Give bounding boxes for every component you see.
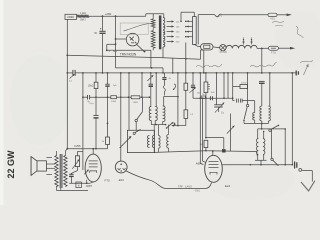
wire branch J top <box>163 73 165 77</box>
svg-text:+260: +260 <box>105 12 112 16</box>
wire branch N top <box>185 59 187 83</box>
squiggle K <box>173 84 176 90</box>
resistor R2 15k <box>88 82 98 88</box>
connector bars <box>295 162 297 169</box>
wire tube V3 bottom <box>87 180 94 183</box>
label box AREF <box>65 14 77 19</box>
pencil arrow at bus end <box>300 61 313 76</box>
capacitor C2 bus series <box>73 70 75 76</box>
wire switch SW1 stem <box>141 97 143 112</box>
RF tube V2 <box>205 151 223 182</box>
wire T2 bottom <box>57 186 89 191</box>
wire branch R mid <box>205 93 207 139</box>
wire branch Y <box>271 129 273 158</box>
wire heater line <box>67 55 200 59</box>
wire left column <box>66 19 68 73</box>
svg-text:4687: 4687 <box>86 184 93 188</box>
small coil L3 <box>253 113 255 121</box>
connector at bus end <box>296 71 298 76</box>
transformer T1 secondary <box>163 18 165 48</box>
wire branch Q <box>202 97 205 162</box>
capacitor C1 50uF <box>94 28 105 35</box>
svg-text:∼1MΩ: ∼1MΩ <box>193 191 200 193</box>
wire branch S <box>223 73 225 98</box>
wire grid chain 3 <box>116 96 131 98</box>
wire heater to bus <box>261 48 263 73</box>
wire branch V2 <box>115 16 117 68</box>
wire branch C top <box>95 73 97 82</box>
wire IF2 top a <box>257 129 259 139</box>
wire selector drop <box>185 43 187 59</box>
AF tube V1 <box>115 161 127 173</box>
node heater-selector <box>185 58 187 60</box>
wire top rail left <box>76 15 79 17</box>
wire fuse-lamp <box>213 46 220 49</box>
trimmer arrow H <box>147 75 153 81</box>
main bus <box>67 72 296 74</box>
wire branch Q upper <box>203 50 205 73</box>
capacitor C7 <box>162 78 171 81</box>
wire branch M <box>177 73 179 126</box>
capacitor C8 <box>191 85 195 87</box>
wire primary bottom <box>152 48 154 50</box>
svg-text:F255: F255 <box>74 144 81 148</box>
transformer T1 primary <box>151 17 155 48</box>
wire upper rail drop <box>162 68 164 73</box>
svg-text:F70: F70 <box>105 178 111 182</box>
wire branch O top <box>192 73 194 85</box>
wire box line drop <box>256 152 258 156</box>
coil L9 <box>163 106 165 122</box>
output transformer T2 primary <box>55 156 58 187</box>
voltage selector S1 <box>185 15 198 45</box>
svg-text:10kΩ: 10kΩ <box>111 101 117 103</box>
output transformer T2 core <box>60 154 62 188</box>
wire C11 bot <box>70 176 72 183</box>
wire pot bottom <box>71 167 77 174</box>
pencil note mid <box>196 64 222 67</box>
capacitor C3 <box>89 103 98 118</box>
scan edge <box>0 0 4 205</box>
wire coil bottoms <box>244 120 268 124</box>
wire box line 2 <box>206 150 257 152</box>
wire mains lead lower <box>279 47 296 50</box>
IF coil L2 <box>268 106 270 121</box>
coil L6d <box>167 125 169 152</box>
svg-text:AREF: AREF <box>67 15 75 19</box>
wire jack drop <box>311 171 313 182</box>
svg-text:22 GW: 22 GW <box>6 150 16 179</box>
capacitor C6 <box>149 84 153 86</box>
svg-text:TRN NO3N: TRN NO3N <box>120 52 137 56</box>
svg-text:1kΩ: 1kΩ <box>211 92 215 94</box>
wire branch D mid <box>107 86 109 124</box>
wire horiz j <box>163 96 178 98</box>
node top rail at C1 <box>102 15 104 17</box>
node heater line left <box>66 54 68 56</box>
title 22GW rotated <box>6 150 16 179</box>
wire F255 line <box>66 148 107 150</box>
node V2 rectifier feed <box>115 38 117 40</box>
switch SW4 in box <box>133 129 141 134</box>
wire pot top <box>78 152 83 156</box>
wire grid link <box>206 138 224 149</box>
wire osc link down <box>261 124 263 129</box>
tuning arrow 1 <box>120 136 132 148</box>
node TRN diag <box>144 51 146 53</box>
wire branch C bot <box>95 118 97 149</box>
wire branch Cv <box>215 73 217 105</box>
wire rectifier feed <box>116 38 127 40</box>
wire branch A <box>66 73 68 149</box>
wire selector bottom <box>194 44 200 46</box>
wire branch E <box>120 73 122 161</box>
wire coil top 1 <box>261 83 263 106</box>
terminal box 6 <box>76 182 82 188</box>
grid cap V2 <box>222 149 226 152</box>
svg-text:£ß3: £ß3 <box>119 178 125 182</box>
wire speaker leads <box>46 164 55 168</box>
wire coil mid bottoms <box>151 121 166 126</box>
label AEH <box>196 161 202 165</box>
wire branch P <box>200 73 203 165</box>
IF coil L5 <box>263 139 265 155</box>
wire branch F <box>128 73 130 130</box>
svg-text:1M: 1M <box>199 144 202 146</box>
IF coil L4 <box>256 139 258 155</box>
switch SW3 <box>269 125 279 132</box>
wire T2 top <box>57 149 68 156</box>
wire branch H top <box>150 73 152 84</box>
wire grid chain 2 <box>90 96 111 98</box>
svg-text:E≤3: E≤3 <box>225 184 231 188</box>
output jack <box>299 169 312 172</box>
coil L8 <box>155 106 157 120</box>
wire branch Z <box>284 129 286 165</box>
wire branch G <box>141 73 143 97</box>
wire rectifier cathode diagonal <box>137 45 145 52</box>
node TRN line left <box>106 49 108 51</box>
node heater junction <box>261 48 263 50</box>
wire L9 top <box>163 97 165 106</box>
wire branch W <box>247 73 249 105</box>
transformer taps with arrows <box>167 20 181 43</box>
node cap C11 <box>71 173 73 175</box>
label tube V1 <box>119 178 125 182</box>
rectifier tube U1 <box>126 33 139 46</box>
wire branch J mid <box>163 79 165 85</box>
svg-text:6Ω: 6Ω <box>197 92 200 94</box>
wire L3 top <box>254 101 256 113</box>
tuning arrow 2 <box>227 125 235 133</box>
wire grid chain 1 <box>83 96 87 98</box>
wire top rail <box>89 15 146 17</box>
label TRN NO3N <box>120 52 137 56</box>
wire branch R top <box>205 73 207 82</box>
series box DE <box>201 94 205 98</box>
pencil hook at mains <box>215 16 222 17</box>
wire bottom link <box>69 182 90 184</box>
wire filament curve <box>124 23 153 31</box>
wire branch T <box>227 73 229 98</box>
svg-text:4Y70N: 4Y70N <box>219 51 227 54</box>
arrow mark under C2 <box>69 74 75 82</box>
pencil V mark <box>301 181 315 191</box>
label TRF LANG <box>178 186 192 189</box>
resistor R8 tapped <box>204 82 215 94</box>
wire TRN line <box>107 49 151 51</box>
pencil 1M note <box>193 191 200 193</box>
coil L6c <box>158 125 160 153</box>
transformer T1 core <box>159 16 162 50</box>
output transformer T2 secondary <box>64 156 67 187</box>
pot arrow <box>72 159 79 169</box>
svg-text:220Ω: 220Ω <box>241 82 247 84</box>
wire band line <box>258 128 286 130</box>
wire branch U <box>232 73 234 101</box>
grid chain dots <box>82 96 150 98</box>
wire R10 leads <box>233 86 248 88</box>
svg-text:BM 3: BM 3 <box>80 19 86 21</box>
wire box bottom line <box>155 151 206 153</box>
switch SW2 <box>243 104 249 123</box>
wire branch N mid <box>185 90 187 110</box>
pencil note mid2 <box>250 62 277 67</box>
wire branch L up <box>172 58 174 73</box>
coil L6 in box <box>147 136 149 148</box>
pencil hook at TRN <box>109 50 117 52</box>
output tube V3 <box>85 149 101 182</box>
pencil note top right <box>272 21 304 38</box>
wire branch AA <box>291 73 293 165</box>
pot P1 <box>75 156 79 167</box>
wire osc stem <box>230 114 232 152</box>
resistor R10 220 <box>240 82 248 88</box>
wire sw5 link <box>172 123 175 126</box>
svg-text:10kΩ: 10kΩ <box>133 102 139 104</box>
trimmer arrow O <box>189 87 196 93</box>
heater ballast humps <box>226 45 257 48</box>
resistor R5 <box>102 137 110 145</box>
wire V2 anode line <box>222 164 293 166</box>
label 4687 <box>86 184 93 188</box>
label +260 <box>105 12 112 16</box>
wire branch I <box>155 73 157 107</box>
resistor R9 <box>199 140 207 147</box>
fuse F3 <box>268 13 277 20</box>
coil L6b <box>152 125 154 153</box>
wire mains lead upper <box>198 14 268 16</box>
switch SW6 <box>271 158 279 166</box>
wire L5 top <box>263 131 264 139</box>
node V2 lower <box>115 43 117 45</box>
trimmer Cv <box>214 102 225 114</box>
node upper rail <box>151 67 153 69</box>
fuse F2 <box>269 46 279 54</box>
wire AVC link <box>171 125 186 127</box>
bus junction dots <box>66 72 293 74</box>
resistor R1 ballast <box>77 13 89 21</box>
svg-text:4 51: 4 51 <box>270 18 275 20</box>
capacitor C5 <box>105 84 117 87</box>
pilot lamp LA1 <box>219 45 227 55</box>
capacitor C10 <box>259 81 265 83</box>
wire fuse drop <box>201 50 204 59</box>
speaker SPK <box>31 157 52 176</box>
wire transformer bottom tap <box>150 50 152 68</box>
switch SW1 <box>135 112 142 131</box>
fuse F1 <box>201 44 214 50</box>
capacitor C11 <box>69 174 74 176</box>
tap marks above ballast <box>242 37 253 45</box>
svg-text:15kΩ: 15kΩ <box>88 85 94 87</box>
wire branch B <box>82 73 84 170</box>
resistor R6 <box>184 83 188 90</box>
label F255 <box>74 144 81 148</box>
wire selector common <box>180 12 194 22</box>
svg-text:0,1μ: 0,1μ <box>89 103 94 105</box>
wire branch D top <box>107 73 109 84</box>
wire screen line <box>193 97 234 99</box>
box tuning unit <box>127 130 154 152</box>
label tube V3 <box>105 178 111 182</box>
wire tube V1 swoop <box>126 171 211 188</box>
wire Z link <box>107 44 116 50</box>
wire branch C mid <box>95 89 97 116</box>
label GL <box>197 92 200 94</box>
wire upper rail <box>116 67 164 69</box>
resistor R3 10k <box>111 96 117 103</box>
label tube V2 <box>225 184 231 188</box>
wire coil2 bottoms <box>255 155 267 166</box>
wire top bridge <box>146 14 164 18</box>
resistor R4 10k <box>131 96 140 104</box>
wire branch X <box>269 73 271 106</box>
resistor R7 <box>184 110 194 119</box>
wire secondary bottom <box>162 47 164 58</box>
capacitor C9 series <box>210 96 212 100</box>
wire branch N bot <box>185 118 187 125</box>
faint unit box <box>120 23 148 35</box>
arrow small <box>84 169 89 174</box>
IF coil L1 <box>260 106 262 121</box>
wire mains upper arrow <box>277 14 292 17</box>
wire 220 link2 <box>242 100 255 102</box>
capacitor breaks <box>237 99 243 103</box>
wire 220 link <box>233 100 235 102</box>
capacitor C4 chain <box>87 95 90 103</box>
wire branch C1 <box>102 16 104 73</box>
wire branch D low <box>107 123 109 136</box>
svg-text:TRF · LANG: TRF · LANG <box>178 186 192 189</box>
svg-text:1,2kΩ: 1,2kΩ <box>80 13 86 15</box>
svg-text:F 51: F 51 <box>271 52 276 55</box>
switch SW5 <box>166 122 173 129</box>
wire branch D bot <box>107 145 109 149</box>
squiggle J <box>163 86 165 96</box>
svg-text:AEH: AEH <box>196 161 202 165</box>
wire branch O bot <box>192 87 194 98</box>
wire branch R bot <box>205 148 207 152</box>
wire humps-fuse2 <box>257 47 268 49</box>
node top rail at V2 <box>115 15 117 17</box>
coil L7 <box>149 106 151 120</box>
wire branch H bot <box>150 86 152 106</box>
wire grid chain 4 <box>140 96 150 98</box>
